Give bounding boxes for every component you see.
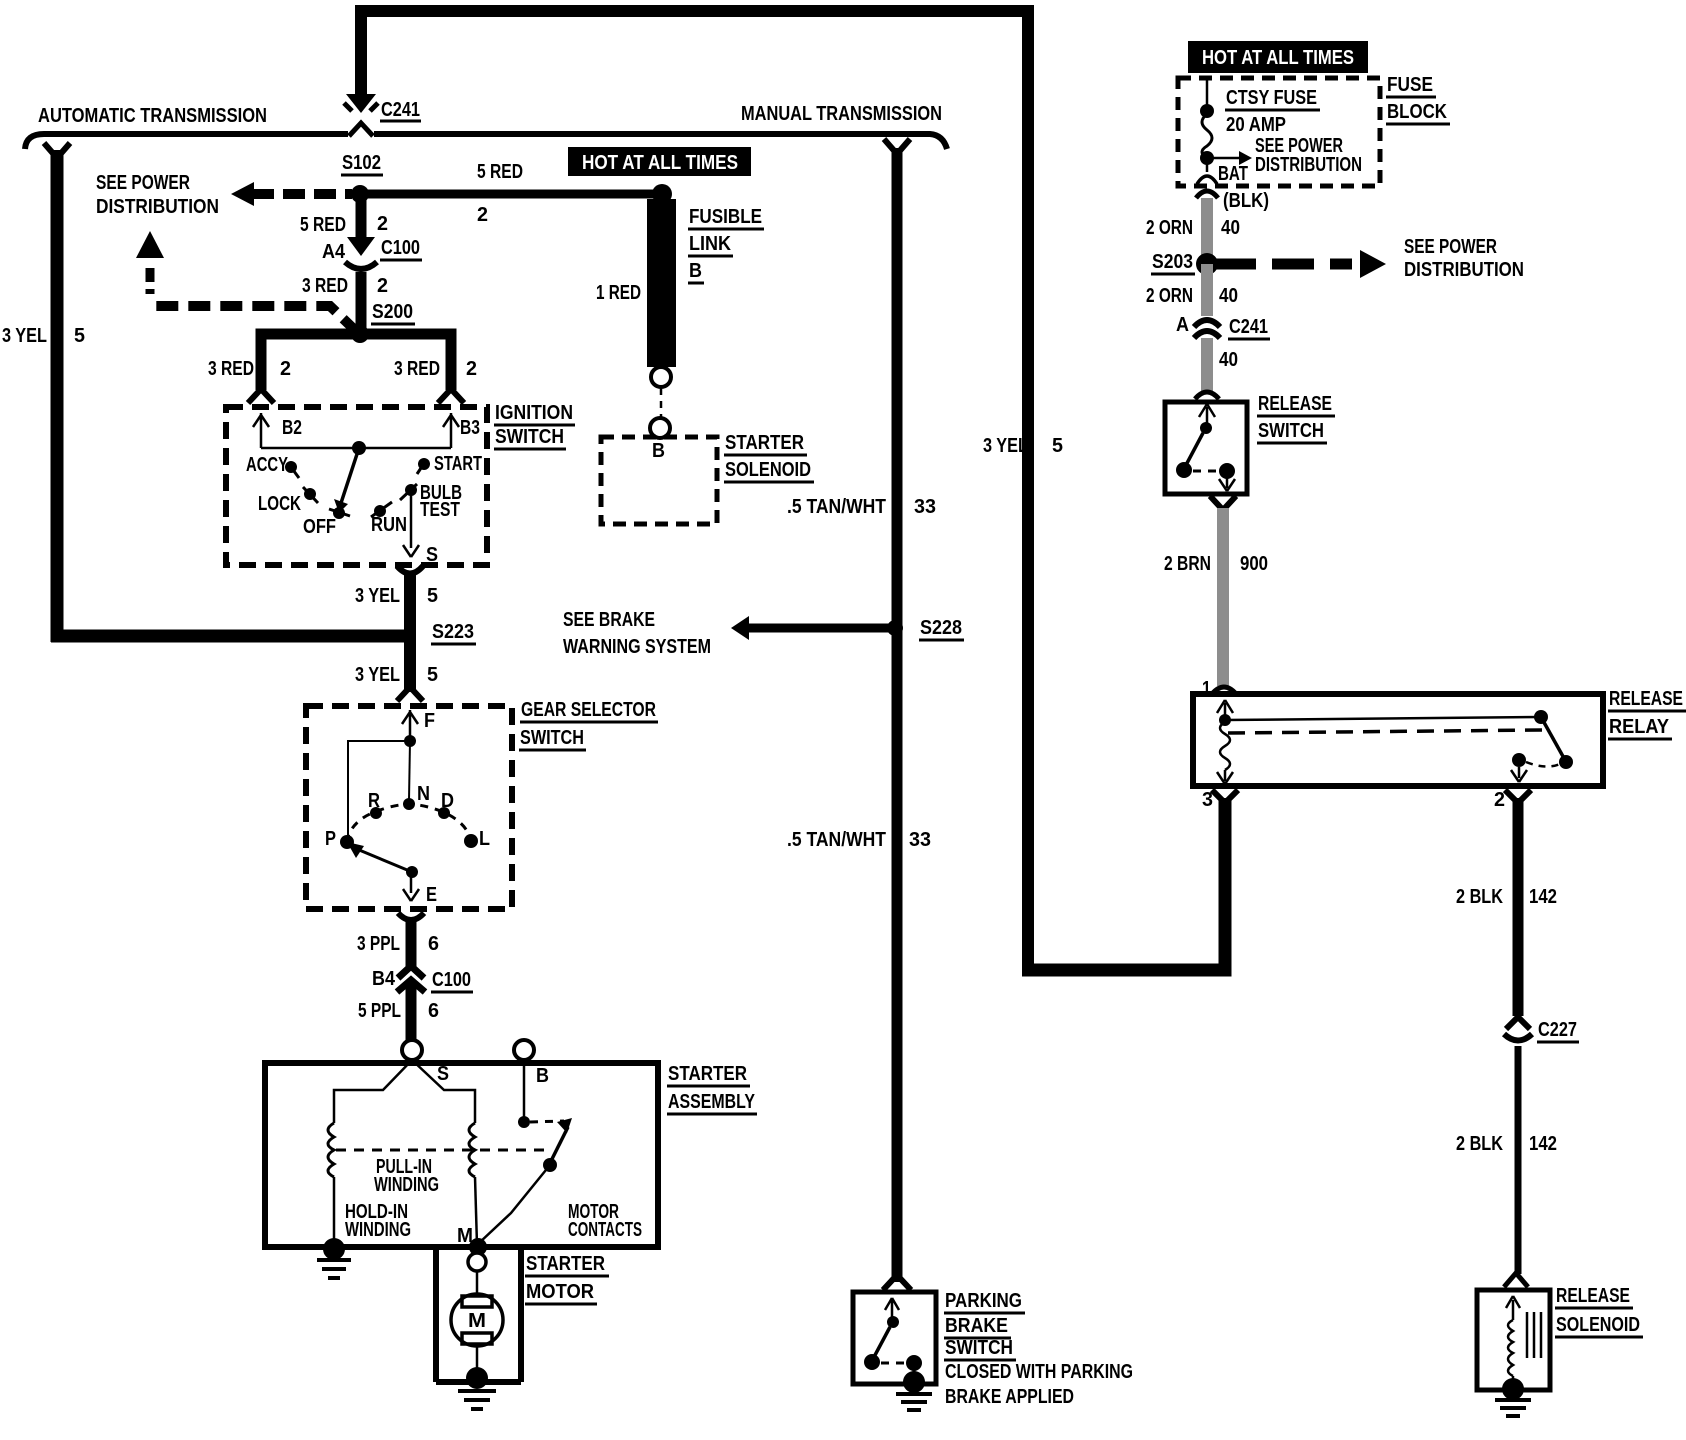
svg-text:33: 33 xyxy=(914,496,936,518)
svg-text:B3: B3 xyxy=(460,417,480,439)
wire top bus from C241 to release relay circuit xyxy=(361,11,1028,964)
connector horns relay pin 3 xyxy=(1212,790,1238,803)
svg-text:F: F xyxy=(424,710,435,732)
svg-text:C100: C100 xyxy=(432,969,471,991)
wire bulb test to S pin xyxy=(410,490,413,548)
wire brush to ground xyxy=(476,1344,479,1374)
connector C227 xyxy=(1506,1017,1530,1029)
svg-text:LINK: LINK xyxy=(689,233,731,255)
triangle arrow up see power distribution xyxy=(136,231,164,258)
pin B2 arrow into box xyxy=(253,413,269,448)
terminal S starter assembly xyxy=(402,1040,422,1060)
svg-text:B: B xyxy=(689,260,702,282)
hot at all times box left xyxy=(568,147,751,176)
parking brake switch arm xyxy=(874,1327,890,1357)
release solenoid ground symbol xyxy=(1495,1400,1531,1416)
wire ignition S to S223 xyxy=(404,572,416,636)
ignition switch box xyxy=(226,407,487,565)
svg-text:MOTOR: MOTOR xyxy=(526,1281,595,1303)
contact ACCY xyxy=(285,461,297,473)
wire C100 to starter S terminal xyxy=(406,984,417,1042)
release switch out arrow xyxy=(1219,477,1235,491)
wire relay pin 3 feed horizontal xyxy=(1022,798,1225,970)
wire orange S203 to C241 xyxy=(1201,264,1213,316)
svg-text:PARKING: PARKING xyxy=(945,1290,1022,1312)
pin S arrow out of box xyxy=(403,545,419,557)
arrow see brake warning xyxy=(731,616,749,640)
svg-text:RELAY: RELAY xyxy=(1609,716,1670,738)
svg-text:P: P xyxy=(325,828,336,850)
wire coil to ground xyxy=(1512,1376,1515,1385)
parking brake switch box xyxy=(853,1292,936,1384)
svg-text:RELEASE: RELEASE xyxy=(1556,1285,1630,1307)
svg-text:5 RED: 5 RED xyxy=(477,161,523,183)
svg-text:40: 40 xyxy=(1221,217,1240,239)
wire S102 to fusible link junction xyxy=(355,190,663,199)
motor ground dot xyxy=(466,1367,488,1389)
hold-in winding coil xyxy=(328,1123,334,1177)
splice S200 xyxy=(351,325,369,343)
motor terminal circle below M xyxy=(468,1253,486,1271)
ground symbol hold-in xyxy=(317,1260,351,1278)
motor contact dashed link xyxy=(530,1121,564,1122)
release solenoid pin arrow xyxy=(1506,1296,1520,1320)
parking brake upper contact xyxy=(887,1316,899,1328)
wire manual transmission vertical xyxy=(892,148,903,1282)
dashed arrow see power distribution upper xyxy=(231,182,254,206)
svg-text:SWITCH: SWITCH xyxy=(495,426,564,448)
svg-text:3 YEL: 3 YEL xyxy=(355,585,400,607)
release solenoid core bars xyxy=(1527,1312,1541,1358)
svg-text:S200: S200 xyxy=(372,301,413,323)
fuse upper node xyxy=(1200,104,1214,118)
svg-text:A4: A4 xyxy=(322,241,346,263)
motor contact pivot xyxy=(543,1158,557,1172)
relay arm pivot xyxy=(1534,710,1548,724)
fuse feed wire xyxy=(1206,78,1209,108)
connector C100 lower B4 xyxy=(398,966,424,978)
svg-text:GEAR SELECTOR: GEAR SELECTOR xyxy=(521,699,656,721)
contact START xyxy=(418,458,430,470)
svg-text:M: M xyxy=(468,1310,486,1332)
relay dashed contact link xyxy=(1526,762,1560,767)
dashed arrow S203 see power distribution xyxy=(1214,259,1352,270)
svg-text:RELEASE: RELEASE xyxy=(1609,688,1683,710)
svg-text:ACCY: ACCY xyxy=(246,454,288,476)
svg-text:2 BLK: 2 BLK xyxy=(1456,1133,1503,1155)
wire S223 to gear selector F xyxy=(404,636,416,692)
svg-text:STARTER: STARTER xyxy=(526,1253,605,1275)
svg-text:C241: C241 xyxy=(381,99,420,121)
svg-text:40: 40 xyxy=(1219,285,1238,307)
parking brake left contact xyxy=(864,1354,880,1370)
connector horns above gear selector xyxy=(397,687,423,701)
svg-text:S228: S228 xyxy=(920,617,962,639)
release switch box xyxy=(1165,402,1247,494)
starter solenoid box xyxy=(601,437,717,524)
splice fusible link junction xyxy=(652,184,672,204)
wire left 3 YEL vertical xyxy=(51,150,64,642)
svg-text:3 YEL: 3 YEL xyxy=(2,325,47,347)
svg-text:N: N xyxy=(417,783,430,805)
svg-text:HOT AT ALL TIMES: HOT AT ALL TIMES xyxy=(582,152,738,174)
starter motor bottom xyxy=(436,1379,521,1385)
relay coil xyxy=(1220,722,1230,770)
svg-text:E: E xyxy=(426,884,437,906)
terminal B starter assembly xyxy=(514,1040,534,1060)
svg-text:L: L xyxy=(479,828,490,850)
contact L xyxy=(464,834,478,848)
svg-text:40: 40 xyxy=(1219,349,1238,371)
wire pull-in to M xyxy=(475,1177,477,1245)
svg-text:SEE POWER: SEE POWER xyxy=(96,172,190,194)
svg-text:DISTRIBUTION: DISTRIBUTION xyxy=(96,196,219,218)
wire orange C241 to release switch xyxy=(1201,338,1213,391)
svg-text:S203: S203 xyxy=(1152,251,1193,273)
svg-text:2: 2 xyxy=(377,213,388,235)
svg-text:CTSY FUSE: CTSY FUSE xyxy=(1226,87,1317,109)
dashed link to solenoid ring xyxy=(660,388,663,417)
svg-text:2 BLK: 2 BLK xyxy=(1456,886,1503,908)
release relay box xyxy=(1193,694,1603,786)
wire C227 to release solenoid xyxy=(1515,1046,1522,1274)
contact BULB TEST xyxy=(405,484,417,496)
svg-text:1 RED: 1 RED xyxy=(596,282,641,304)
gear wiper arm from P to pivot xyxy=(352,847,412,872)
svg-text:FUSE: FUSE xyxy=(1387,74,1433,96)
brush top xyxy=(462,1296,492,1307)
terminal M dot xyxy=(469,1238,487,1256)
relay contact feed line xyxy=(1225,717,1541,720)
BAT terminal arc xyxy=(1197,176,1217,184)
svg-text:2: 2 xyxy=(280,358,291,380)
svg-text:SEE POWER: SEE POWER xyxy=(1404,236,1497,258)
svg-text:5 PPL: 5 PPL xyxy=(358,1000,401,1022)
svg-text:MANUAL TRANSMISSION: MANUAL TRANSMISSION xyxy=(741,103,942,125)
connector horns parking brake xyxy=(883,1275,911,1290)
svg-text:C227: C227 xyxy=(1538,1019,1577,1041)
connector horns above release solenoid xyxy=(1504,1273,1528,1287)
svg-text:2 ORN: 2 ORN xyxy=(1146,285,1193,307)
brush bottom xyxy=(462,1333,492,1344)
contact D xyxy=(438,807,450,819)
release switch pin arrow xyxy=(1199,404,1215,424)
svg-text:WARNING SYSTEM: WARNING SYSTEM xyxy=(563,636,711,658)
svg-text:3 RED: 3 RED xyxy=(394,358,440,380)
wire S102 down to C100 xyxy=(356,194,367,237)
svg-text:SEE BRAKE: SEE BRAKE xyxy=(563,609,655,631)
splice S203 xyxy=(1196,253,1218,275)
ignition wiper pivot xyxy=(352,441,366,455)
relay movable arm xyxy=(1541,717,1565,760)
svg-text:SOLENOID: SOLENOID xyxy=(725,459,811,481)
fusible link lower ring xyxy=(651,367,671,387)
connector horns below gear selector E xyxy=(398,913,424,920)
wire brown release switch to relay xyxy=(1217,508,1229,686)
svg-text:5: 5 xyxy=(427,585,438,607)
release switch upper contact xyxy=(1200,422,1212,434)
svg-text:DISTRIBUTION: DISTRIBUTION xyxy=(1404,259,1524,281)
wire fuse to BAT xyxy=(1206,158,1209,172)
contact OFF xyxy=(333,507,345,519)
svg-text:BLOCK: BLOCK xyxy=(1387,101,1447,123)
svg-text:CLOSED WITH PARKING: CLOSED WITH PARKING xyxy=(945,1361,1133,1383)
wire contact to ground xyxy=(913,1363,916,1378)
wire see brake warning xyxy=(744,624,897,633)
solenoid terminal ring B xyxy=(650,418,670,438)
svg-text:2 BRN: 2 BRN xyxy=(1164,553,1211,575)
release switch left contact xyxy=(1176,462,1192,478)
relay contact out arrow xyxy=(1511,767,1527,782)
connector horns B2 xyxy=(248,389,274,403)
fuse block box xyxy=(1178,78,1380,186)
svg-text:5: 5 xyxy=(74,325,85,347)
wire B to fixed contact xyxy=(523,1060,526,1118)
wire E to C100 xyxy=(406,918,417,970)
svg-text:900: 900 xyxy=(1240,553,1268,575)
parking brake dashed link xyxy=(881,1362,905,1365)
svg-text:5 RED: 5 RED xyxy=(300,214,346,236)
plunger linkage dashed xyxy=(336,1149,552,1152)
svg-text:C100: C100 xyxy=(381,237,420,259)
relay dashed actuator line xyxy=(1228,730,1544,733)
fuse arrow see power distribution xyxy=(1207,157,1243,160)
pin B3 arrow into box xyxy=(443,413,459,448)
svg-text:ASSEMBLY: ASSEMBLY xyxy=(668,1091,756,1113)
svg-text:142: 142 xyxy=(1529,886,1557,908)
svg-text:SWITCH: SWITCH xyxy=(945,1337,1013,1359)
gear internal junction xyxy=(404,735,416,747)
svg-text:RUN: RUN xyxy=(371,514,407,536)
release switch arm xyxy=(1186,433,1203,465)
svg-text:WINDING: WINDING xyxy=(374,1174,439,1196)
svg-text:IGNITION: IGNITION xyxy=(495,402,573,424)
relay fixed contact xyxy=(1512,753,1526,767)
motor contact fixed B xyxy=(518,1116,530,1128)
pin F arrow into box xyxy=(402,710,418,741)
ground dot hold-in xyxy=(323,1238,345,1260)
parking brake right contact xyxy=(906,1355,922,1371)
svg-text:6: 6 xyxy=(428,933,439,955)
svg-text:S: S xyxy=(437,1063,449,1085)
contact R xyxy=(370,807,382,819)
dashed stub below triangle xyxy=(146,268,155,294)
wire S223 horizontal xyxy=(51,630,412,643)
contact N xyxy=(403,798,415,810)
motor ground symbol xyxy=(458,1391,496,1409)
wire contact pivot to M xyxy=(479,1165,550,1243)
svg-text:A: A xyxy=(1176,314,1189,336)
svg-text:CONTACTS: CONTACTS xyxy=(568,1219,642,1241)
wire pivot to E pin xyxy=(410,872,413,893)
svg-text:M: M xyxy=(457,1225,473,1247)
release solenoid box xyxy=(1477,1290,1550,1390)
motor contact arm xyxy=(550,1127,568,1163)
svg-text:33: 33 xyxy=(909,829,931,851)
svg-text:3 YEL: 3 YEL xyxy=(983,435,1028,457)
release solenoid ground dot xyxy=(1502,1378,1524,1400)
fuse CTSY element xyxy=(1202,114,1212,158)
transmission divider line xyxy=(25,134,947,149)
wire M to brush xyxy=(476,1271,479,1296)
fusible link B bar xyxy=(647,199,676,367)
svg-text:3 RED: 3 RED xyxy=(302,275,348,297)
svg-text:20 AMP: 20 AMP xyxy=(1226,114,1286,136)
svg-text:FUSIBLE: FUSIBLE xyxy=(689,206,762,228)
svg-text:OFF: OFF xyxy=(303,516,336,538)
release solenoid coil xyxy=(1508,1320,1513,1376)
parking brake ground dot xyxy=(903,1371,925,1393)
contact RUN xyxy=(374,505,386,517)
wire hold-in to ground dot xyxy=(333,1177,336,1245)
svg-text:STARTER: STARTER xyxy=(668,1063,747,1085)
wire junction to P contact xyxy=(348,741,410,838)
connector horns above release switch xyxy=(1195,392,1219,399)
gear contact arc dashed xyxy=(346,804,471,842)
contact P xyxy=(340,835,354,849)
relay arm end dot xyxy=(1559,755,1573,769)
splice S228 xyxy=(887,620,903,636)
svg-text:2: 2 xyxy=(377,275,388,297)
svg-text:6: 6 xyxy=(428,1000,439,1022)
wire relay pin 2 to C227 xyxy=(1513,798,1524,1016)
svg-text:B: B xyxy=(536,1065,549,1087)
svg-text:5: 5 xyxy=(427,664,438,686)
starter assembly box xyxy=(265,1063,658,1247)
svg-text:AUTOMATIC TRANSMISSION: AUTOMATIC TRANSMISSION xyxy=(38,105,267,127)
connector horns below fuse block xyxy=(1196,191,1218,198)
parking brake pin arrow xyxy=(885,1298,899,1318)
wire S200 branch right to B3 xyxy=(360,334,451,390)
svg-text:TEST: TEST xyxy=(420,499,460,521)
gear wiper pivot xyxy=(406,866,418,878)
splice S102 xyxy=(351,185,369,203)
svg-text:5: 5 xyxy=(1052,435,1063,457)
connector horns above relay xyxy=(1212,687,1236,694)
svg-text:S: S xyxy=(426,544,438,566)
svg-text:DISTRIBUTION: DISTRIBUTION xyxy=(1255,154,1362,176)
C241 bump on divider xyxy=(349,123,373,136)
svg-text:BRAKE: BRAKE xyxy=(945,1315,1008,1337)
svg-text:.5 TAN/WHT: .5 TAN/WHT xyxy=(787,496,886,518)
svg-text:WINDING: WINDING xyxy=(345,1219,411,1241)
hot at all times box right xyxy=(1188,41,1368,73)
svg-text:C241: C241 xyxy=(1229,316,1268,338)
svg-text:B2: B2 xyxy=(282,417,302,439)
connector horns relay pin 2 xyxy=(1505,790,1531,803)
svg-text:HOT AT ALL TIMES: HOT AT ALL TIMES xyxy=(1202,47,1354,69)
svg-text:RELEASE: RELEASE xyxy=(1258,393,1332,415)
ignition wiper arm to OFF xyxy=(341,448,359,503)
relay coil out arrow xyxy=(1217,770,1233,784)
contact LOCK xyxy=(304,488,316,500)
svg-text:2: 2 xyxy=(466,358,477,380)
connector horns below release switch xyxy=(1210,496,1236,510)
wire C100 to S200 xyxy=(356,272,367,334)
wire S200 branch left to B2 xyxy=(261,334,360,390)
svg-text:SWITCH: SWITCH xyxy=(520,727,584,749)
release switch dashed link xyxy=(1193,470,1219,473)
motor armature circle xyxy=(451,1294,503,1346)
svg-text:3 PPL: 3 PPL xyxy=(357,933,400,955)
fuse lower node xyxy=(1200,151,1214,165)
svg-text:142: 142 xyxy=(1529,1133,1557,1155)
relay coil top node xyxy=(1219,714,1231,726)
gear selector switch box xyxy=(306,706,512,909)
svg-text:.5 TAN/WHT: .5 TAN/WHT xyxy=(787,829,886,851)
wire S to pull-in winding xyxy=(412,1060,475,1123)
svg-text:BAT: BAT xyxy=(1218,163,1248,185)
dashed wire S200 to power distribution arrow xyxy=(150,306,359,334)
svg-text:START: START xyxy=(434,453,482,475)
svg-text:B4: B4 xyxy=(372,968,396,990)
wire junction to N contact xyxy=(409,741,410,800)
svg-text:R: R xyxy=(368,790,380,812)
relay pin 1 arrow xyxy=(1217,700,1233,717)
connector C100 arrowhead A4 xyxy=(347,237,375,256)
svg-text:LOCK: LOCK xyxy=(258,493,301,515)
arrow manual wire top xyxy=(884,139,910,154)
wire B2-B3 internal bus xyxy=(261,447,451,450)
svg-text:3 RED: 3 RED xyxy=(208,358,254,380)
svg-text:B: B xyxy=(652,440,665,462)
connector horns B3 xyxy=(438,389,464,403)
pull-in winding coil xyxy=(469,1123,475,1177)
svg-text:(BLK): (BLK) xyxy=(1223,190,1269,212)
svg-text:D: D xyxy=(441,790,454,812)
pin E arrow out of box xyxy=(403,889,419,901)
connector C241 A double arc xyxy=(1194,320,1220,338)
wire orange fuse to S203 xyxy=(1201,198,1213,256)
svg-text:S102: S102 xyxy=(342,152,381,174)
parking brake ground symbol xyxy=(896,1394,932,1410)
starter motor case xyxy=(436,1247,521,1382)
svg-text:STARTER: STARTER xyxy=(725,432,804,454)
svg-text:2 ORN: 2 ORN xyxy=(1146,217,1193,239)
svg-text:SOLENOID: SOLENOID xyxy=(1556,1314,1640,1336)
connector C241 arrowhead xyxy=(346,94,376,113)
connector horns left wire top xyxy=(44,143,70,158)
wire S to hold-in winding xyxy=(334,1060,412,1123)
svg-text:S223: S223 xyxy=(432,621,474,643)
release switch right contact xyxy=(1219,463,1235,479)
svg-text:SWITCH: SWITCH xyxy=(1258,420,1324,442)
svg-text:3 YEL: 3 YEL xyxy=(355,664,400,686)
svg-text:BRAKE APPLIED: BRAKE APPLIED xyxy=(945,1386,1074,1408)
svg-text:2: 2 xyxy=(477,204,488,226)
connector horns below ignition S xyxy=(397,566,423,574)
